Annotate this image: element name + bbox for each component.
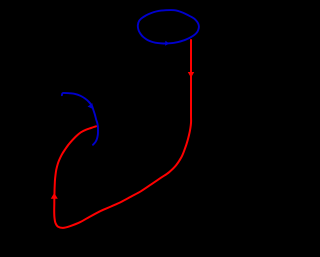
- blue spiral arc: [62, 93, 98, 145]
- arrowhead on loop (pointing right): [165, 41, 169, 46]
- red trajectory: [54, 39, 191, 228]
- arrowhead on blue arc (pointing down-right): [88, 103, 93, 109]
- blue limit-cycle loop: [138, 10, 199, 43]
- red upward arrowhead: [51, 193, 58, 199]
- red downward arrowhead: [188, 72, 194, 78]
